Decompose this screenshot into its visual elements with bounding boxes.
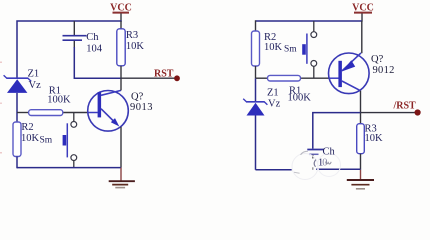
ground (left) (109, 168, 135, 188)
svg-text:0: 0 (322, 157, 327, 168)
node RST terminal dot (174, 75, 180, 81)
wire: bottom rail left circuit (17, 167, 121, 169)
wire: left rail zener to R2 (16, 93, 18, 123)
wire: top rail left circuit (17, 21, 122, 78)
resistor R1 (left) (17, 110, 88, 116)
svg-text:R2: R2 (21, 122, 33, 133)
svg-text:104: 104 (86, 43, 103, 54)
capacitor Ch (right) (307, 150, 324, 170)
svg-text:RST: RST (154, 68, 174, 79)
zener Z1 (right) (243, 78, 267, 170)
resistor R3 (right) (357, 113, 365, 170)
svg-text:100K: 100K (288, 92, 312, 103)
svg-text:/RST: /RST (393, 100, 417, 111)
transistor Q1 9013 (NPN) (88, 78, 129, 167)
svg-text:100K: 100K (47, 95, 71, 106)
node /RST terminal dot (415, 109, 421, 115)
svg-text:Sm: Sm (284, 44, 297, 54)
wire: /RST line (361, 112, 417, 114)
power VCC (left) (110, 2, 132, 21)
svg-text:R3: R3 (126, 30, 138, 41)
svg-text:10K: 10K (365, 133, 384, 144)
svg-text:Sm: Sm (40, 136, 53, 146)
zener Z1 (left) (4, 75, 32, 93)
watermark (faint circles and marks) (292, 151, 341, 179)
resistor R3 (left) (117, 21, 125, 78)
svg-text:10K: 10K (264, 42, 283, 53)
svg-text:Z1: Z1 (267, 88, 279, 99)
resistor R1 (right) (256, 75, 329, 81)
switch Sm (left pushbutton) (63, 113, 77, 168)
resistor R2 (left) (13, 122, 21, 168)
ground (right) (347, 170, 374, 189)
wire: top rail right circuit (256, 20, 363, 22)
svg-text:9013: 9013 (130, 102, 153, 113)
wire: bottom rail right circuit (gap where watermark washes it) (256, 169, 292, 171)
transistor Q2 9012 (PNP) (329, 21, 370, 113)
svg-text:10K: 10K (126, 41, 144, 52)
switch Sm (right pushbutton) (302, 21, 316, 78)
wire: /RST node left branch to cap (313, 113, 361, 149)
svg-text:Q?: Q? (131, 91, 144, 102)
resistor R2 (right) (252, 31, 260, 78)
svg-text:Z1: Z1 (28, 69, 40, 80)
wire: cap bottom to RST node (74, 47, 121, 78)
edge artifacts (0, 62, 2, 154)
svg-text:9012: 9012 (373, 65, 395, 76)
svg-text:Vz: Vz (29, 80, 42, 91)
svg-text:Vz: Vz (268, 99, 281, 110)
svg-text:Ch: Ch (323, 146, 336, 157)
capacitor Ch (left) (63, 21, 87, 48)
svg-text:Ch: Ch (86, 32, 99, 43)
svg-text:Q?: Q? (371, 54, 384, 65)
svg-text:10K: 10K (21, 133, 40, 144)
power VCC (right) (352, 2, 374, 21)
wire: RST line (121, 77, 176, 79)
